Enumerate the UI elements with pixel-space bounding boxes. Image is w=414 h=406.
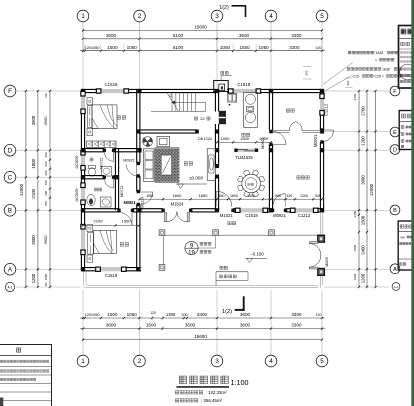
drawing title — [179, 376, 228, 383]
axis extension lines — [82, 22, 84, 89]
svg-text:DK1224: DK1224 — [198, 136, 213, 141]
kitchen door frame blocks on wall 3 — [219, 111, 226, 117]
svg-text:3900: 3900 — [31, 235, 36, 245]
svg-text:2: 2 — [138, 358, 142, 365]
svg-text:5: 5 — [320, 13, 324, 20]
svg-text:C1212: C1212 — [323, 103, 328, 116]
living room fan symbol — [143, 137, 153, 147]
svg-text:9W: 9W — [401, 236, 406, 240]
svg-text:F: F — [8, 88, 12, 95]
svg-text:1500: 1500 — [146, 323, 157, 328]
svg-text:2700: 2700 — [353, 93, 357, 100]
svg-text:2: 2 — [138, 13, 142, 20]
label can-ting dining — [248, 183, 254, 185]
svg-text:120: 120 — [316, 46, 322, 50]
shrine cabinet — [207, 149, 215, 181]
svg-text:A: A — [393, 267, 397, 273]
fence annotation wei-qiang — [220, 266, 227, 269]
svg-text:1500: 1500 — [122, 219, 132, 224]
svg-text:1200: 1200 — [360, 273, 365, 283]
kitchen sink — [228, 94, 237, 103]
svg-text:12900: 12900 — [19, 183, 24, 196]
svg-text:C1212: C1212 — [298, 213, 311, 218]
bedroom2 bottom wall (axis A) — [81, 267, 100, 269]
svg-text:: 142.33m²: : 142.33m² — [206, 390, 228, 395]
svg-text:1200: 1200 — [300, 194, 308, 198]
svg-text:120: 120 — [150, 311, 156, 315]
svg-text:1050: 1050 — [221, 136, 231, 141]
stamp box 1 — [399, 26, 414, 89]
svg-text:600: 600 — [304, 70, 308, 75]
nightstand top — [87, 98, 93, 105]
svg-text:2700: 2700 — [360, 106, 365, 116]
svg-text:1: 1 — [81, 13, 85, 20]
svg-text:100: 100 — [44, 93, 48, 98]
axis circles right — [390, 86, 400, 96]
svg-text:18J8: 18J8 — [382, 67, 390, 71]
B wall (bottom main wall) — [81, 208, 119, 210]
svg-text:1380: 1380 — [353, 210, 357, 217]
svg-text:3: 3 — [215, 358, 219, 365]
svg-text:<: < — [375, 58, 377, 62]
svg-text:120: 120 — [44, 282, 48, 287]
svg-text:±0.000: ±0.000 — [189, 175, 203, 180]
svg-text:1550: 1550 — [247, 194, 255, 198]
axis circles bottom — [77, 355, 89, 367]
svg-text:C1518: C1518 — [105, 273, 118, 278]
svg-text:3300: 3300 — [289, 45, 300, 50]
window C1212 right wall — [320, 99, 324, 111]
living room TV cabinet — [157, 136, 170, 146]
storage room label — [297, 176, 309, 179]
svg-text:1050: 1050 — [220, 45, 231, 50]
svg-text:1600: 1600 — [230, 194, 238, 198]
svg-text:3: 3 — [215, 13, 219, 20]
svg-text:600: 600 — [44, 161, 48, 166]
svg-text:1201050: 1201050 — [84, 45, 100, 50]
left exterior wall (axis 1) — [80, 89, 82, 96]
left dimension lines — [25, 91, 27, 287]
svg-text:1: 1 — [81, 358, 85, 365]
svg-text:3400: 3400 — [197, 312, 208, 317]
svg-text:1800: 1800 — [353, 244, 357, 251]
dining door M1021 arc — [217, 191, 232, 206]
svg-text:4: 4 — [269, 13, 273, 20]
svg-text:3900: 3900 — [43, 235, 48, 245]
window GC0609 bath2 — [81, 188, 85, 201]
staircase — [171, 93, 173, 111]
svg-text:15600: 15600 — [194, 334, 207, 339]
dining table — [242, 174, 261, 193]
svg-text:4: 4 — [269, 358, 273, 365]
stamp box 3 — [398, 221, 414, 270]
bedroom2 door M0921 arc — [119, 213, 132, 226]
axis circle 1 top — [77, 10, 89, 22]
svg-text:<: < — [382, 74, 384, 78]
svg-text:B: B — [8, 208, 12, 215]
svg-text:750: 750 — [44, 201, 48, 206]
svg-text:600: 600 — [346, 80, 350, 85]
svg-text:M0721: M0721 — [120, 185, 124, 197]
nightstand2 top — [87, 225, 93, 232]
svg-text:1050: 1050 — [259, 136, 269, 141]
svg-text:600: 600 — [44, 152, 48, 157]
svg-text:15600: 15600 — [194, 25, 207, 30]
E wall pig-pen bottom (light) with double door — [273, 130, 290, 132]
svg-text:1500: 1500 — [360, 215, 365, 225]
right exterior wall (axis 5) — [319, 89, 321, 98]
exterior notes leaders — [348, 51, 374, 54]
svg-text:420: 420 — [287, 194, 293, 198]
svg-text:TLM1525: TLM1525 — [235, 155, 253, 160]
porch columns — [159, 230, 165, 236]
svg-text:GC0609: GC0609 — [75, 188, 79, 201]
svg-text:M0921: M0921 — [273, 213, 286, 218]
D wall (master bedroom bottom) — [81, 148, 104, 150]
svg-text:1050: 1050 — [127, 312, 138, 317]
window bedroom2 left wall — [81, 229, 85, 250]
kitchen stove counter — [244, 92, 258, 127]
label yan-lang eave corridor — [228, 222, 236, 225]
stamp box 2 — [399, 111, 414, 150]
svg-text:: 266.45m²: : 266.45m² — [201, 398, 223, 403]
svg-text:5: 5 — [320, 358, 324, 365]
nightstand bottom — [87, 128, 93, 135]
storage door M0921 arc — [273, 194, 286, 207]
dining area dims above B wall — [140, 198, 323, 200]
svg-text:1500: 1500 — [107, 45, 118, 50]
master bed — [92, 105, 117, 128]
E wall stair hall bottom — [138, 129, 198, 131]
svg-text:3600: 3600 — [240, 323, 251, 328]
svg-text:3600: 3600 — [239, 33, 250, 38]
green window edge strip — [411, 0, 414, 406]
svg-text:F: F — [393, 89, 397, 95]
label gong-wei public bath — [95, 188, 102, 191]
svg-text:1050: 1050 — [127, 45, 138, 50]
nightstand2 bottom — [87, 255, 93, 262]
sofa — [143, 149, 154, 182]
window C1212 storage in B wall — [295, 208, 313, 212]
bath2 door M0721 arc — [105, 179, 114, 188]
fence walls — [83, 272, 85, 285]
svg-text:GC0609: GC0609 — [75, 155, 79, 168]
area notes — [175, 391, 202, 394]
porch eave line — [164, 234, 321, 236]
detail callout 9/19 — [185, 241, 198, 254]
top exterior wall (axis F) — [81, 88, 101, 90]
table header ming — [16, 348, 20, 352]
bath1 washbasin — [102, 167, 112, 177]
label chu-fang kitchen — [242, 133, 250, 136]
svg-text:3600: 3600 — [240, 312, 251, 317]
svg-text:3900: 3900 — [360, 175, 365, 185]
label zhu-wo master bedroom — [117, 116, 126, 120]
svg-text:1800: 1800 — [172, 193, 182, 198]
svg-text:120: 120 — [316, 313, 322, 317]
svg-text:1500: 1500 — [240, 136, 250, 141]
svg-text:A-1: A-1 — [394, 285, 399, 289]
svg-text:650: 650 — [147, 194, 153, 198]
svg-text:1050: 1050 — [258, 45, 269, 50]
right dimension lines — [358, 91, 360, 287]
svg-text:12900: 12900 — [369, 183, 374, 196]
wall axis 2 vertical — [136, 89, 138, 163]
wardrobe — [87, 141, 117, 148]
pig pen label — [286, 109, 294, 112]
svg-text:M0921: M0921 — [123, 159, 135, 163]
svg-text:1200: 1200 — [360, 136, 365, 146]
svg-text:1380: 1380 — [166, 312, 176, 317]
svg-text:C1518: C1518 — [245, 213, 258, 218]
carpet (speckled) — [155, 148, 179, 183]
window C1518 dining in B wall — [240, 208, 263, 212]
flue box (yan dao) — [214, 81, 229, 92]
svg-text:1500: 1500 — [107, 312, 118, 317]
gate posts M825 — [318, 235, 324, 242]
wall columns top — [81, 89, 85, 93]
label wo-shi bedroom — [120, 243, 129, 247]
bedroom2 bed — [94, 230, 117, 253]
svg-text:750: 750 — [44, 180, 48, 185]
window GC0609 bath1 — [81, 155, 85, 166]
svg-text:1080: 1080 — [44, 273, 48, 280]
svg-text:22: 22 — [200, 116, 205, 121]
svg-text:18J8: 18J8 — [376, 51, 384, 55]
svg-text:3600: 3600 — [106, 33, 117, 38]
label yan-dao flue — [221, 71, 228, 74]
kitchen interior dims — [217, 141, 271, 143]
svg-text:3300: 3300 — [291, 312, 302, 317]
svg-text:1800: 1800 — [31, 158, 36, 168]
svg-text:600: 600 — [44, 170, 48, 175]
svg-text:650: 650 — [219, 194, 225, 198]
svg-text:C15: C15 — [353, 74, 359, 78]
svg-text:D: D — [393, 148, 397, 154]
svg-text:M1021: M1021 — [220, 213, 233, 218]
svg-text:C1518: C1518 — [237, 82, 250, 87]
svg-text:3300: 3300 — [291, 323, 302, 328]
svg-text:D: D — [8, 147, 13, 154]
bottom dimension lines — [80, 317, 325, 319]
svg-text:2100: 2100 — [31, 188, 36, 198]
bedroom2 interior dims — [83, 224, 139, 226]
svg-text:5100: 5100 — [173, 33, 184, 38]
svg-text:600: 600 — [44, 190, 48, 195]
svg-text:1650: 1650 — [199, 193, 209, 198]
svg-text:M0921: M0921 — [313, 134, 318, 147]
door M0921 right wall with outward arc — [324, 130, 334, 142]
svg-text:−0.150: −0.150 — [250, 252, 264, 257]
gate door arcs — [309, 243, 321, 255]
main door M1824 leaves and arcs — [164, 212, 166, 221]
bath2 washbasin — [101, 197, 112, 207]
svg-text:C: C — [8, 174, 13, 181]
top dimension lines — [83, 29, 322, 31]
sliding door TLM1525 — [236, 149, 257, 152]
svg-text:900: 900 — [275, 194, 281, 198]
window C1518 top wall left — [101, 89, 124, 93]
window master bedroom left wall — [81, 96, 85, 109]
svg-text:1200: 1200 — [353, 273, 357, 280]
hall door M0921 arc — [140, 192, 153, 205]
svg-text:C25: C25 — [375, 74, 381, 78]
svg-text:5100: 5100 — [173, 45, 184, 50]
svg-text:C1518: C1518 — [105, 82, 118, 87]
tea table on carpet — [161, 155, 171, 175]
window C1518 top wall kitchen — [233, 89, 256, 93]
svg-text:3900: 3900 — [43, 116, 48, 126]
bath right wall — [114, 149, 116, 211]
svg-text:A-1: A-1 — [8, 286, 13, 290]
label shang-22-steps — [194, 117, 197, 120]
svg-text:1(2): 1(2) — [219, 5, 229, 11]
wall axis 4 vertical — [268, 89, 270, 129]
bath2 squat pan — [87, 194, 95, 205]
svg-text:3900: 3900 — [31, 115, 36, 125]
svg-text:1500: 1500 — [239, 45, 250, 50]
wall axis 3 vertical — [214, 89, 216, 111]
svg-text:DK1224: DK1224 — [141, 197, 145, 210]
bottom-left corner fragment — [0, 398, 3, 406]
svg-text:3600: 3600 — [106, 323, 117, 328]
svg-text:1200: 1200 — [31, 273, 36, 283]
label wei bath1 — [90, 158, 93, 161]
svg-text:B: B — [393, 208, 397, 214]
svg-text:M825: M825 — [324, 256, 329, 267]
svg-text:540: 540 — [315, 194, 321, 198]
axis circles left — [4, 85, 16, 97]
svg-text:19: 19 — [188, 251, 195, 257]
svg-text:E: E — [393, 130, 397, 136]
bath1 door M0721 arc — [105, 152, 114, 161]
C wall (bath divider) — [81, 175, 104, 177]
vestibule door M0921 arc — [126, 165, 136, 177]
svg-text:3600: 3600 — [185, 323, 196, 328]
svg-text:2400: 2400 — [360, 245, 365, 255]
svg-text:2100: 2100 — [94, 219, 104, 224]
bath1 toilet — [89, 166, 96, 169]
window C1518 bedroom2 bottom — [100, 267, 121, 271]
notes table — [0, 345, 52, 406]
svg-text:M1824: M1824 — [171, 201, 184, 206]
svg-text:1201050: 1201050 — [84, 312, 100, 317]
svg-text:1(2): 1(2) — [222, 309, 232, 315]
svg-text:1:100: 1:100 — [231, 378, 249, 387]
svg-text:M0921: M0921 — [124, 200, 136, 204]
svg-text::: : — [408, 262, 409, 266]
svg-text:3300: 3300 — [291, 33, 302, 38]
label tang-wu main hall — [184, 162, 193, 166]
gate door leaves — [309, 242, 318, 244]
